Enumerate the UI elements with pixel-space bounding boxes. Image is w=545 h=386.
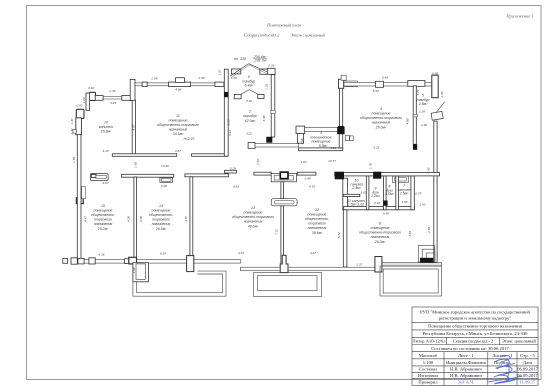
room3 top left block (296, 126, 305, 133)
chunk bathroom partition2 bottom (383, 201, 387, 206)
pier between kabinet window and top band (130, 79, 135, 100)
pier 1 top band (142, 82, 147, 86)
svg-text:34.5м²: 34.5м² (173, 132, 184, 136)
svg-text:3.22: 3.22 (246, 131, 252, 135)
bottom wall right segment (379, 263, 442, 266)
divider rooms 14/13 (190, 177, 193, 260)
svg-text:1.77: 1.77 (416, 89, 420, 95)
svg-text:2.8м²: 2.8м² (418, 102, 428, 106)
corridor window band (255, 144, 299, 147)
svg-text:2.2м²: 2.2м² (370, 194, 380, 198)
svg-text:4.87: 4.87 (175, 149, 181, 153)
svg-text:6.07: 6.07 (102, 181, 108, 185)
svg-text:помещение: помещение (152, 209, 171, 213)
bathroom horizontal partition (344, 194, 360, 196)
column B (76, 109, 84, 118)
long wall segment D (297, 172, 316, 175)
bump right of room4 column (341, 75, 346, 80)
svg-text:0.94: 0.94 (374, 201, 380, 205)
svg-text:назначения: назначения (152, 222, 171, 226)
bathroom block top wall (335, 173, 440, 176)
svg-text:ЗуЗ А.Ч.: ЗуЗ А.Ч. (458, 380, 475, 385)
svg-text:6.4м²: 6.4м² (245, 84, 254, 88)
bathroom right wall (411, 176, 414, 210)
svg-text:4.26: 4.26 (126, 216, 130, 222)
chunk bathroom mid column (373, 172, 381, 179)
svg-text:общественно-: общественно- (149, 213, 174, 217)
pier right of corridor window (298, 127, 304, 143)
svg-text:0.88: 0.88 (432, 71, 438, 75)
svg-text:общественно-: общественно- (91, 213, 116, 217)
svg-text:6.29: 6.29 (160, 251, 166, 255)
svg-text:Масштаб: Масштаб (419, 353, 438, 358)
window block kabinet left (95, 96, 103, 101)
room4 top-left column (339, 79, 344, 88)
svg-text:26.5м²: 26.5м² (155, 227, 167, 231)
room4 top right pier (408, 81, 425, 87)
svg-text:14: 14 (159, 204, 163, 208)
svg-text:10.68: 10.68 (161, 164, 169, 168)
svg-text:6.85: 6.85 (383, 211, 389, 215)
svg-text:1.01: 1.01 (265, 84, 269, 90)
bathroom partition 2 (384, 176, 387, 210)
bathroom bottom wall (344, 207, 415, 210)
svg-text:2.4м²: 2.4м² (351, 186, 361, 190)
mid pier top band (168, 82, 190, 86)
svg-text:1.63: 1.63 (300, 160, 306, 164)
svg-text:Н.В. Абрамович: Н.В. Абрамович (450, 367, 482, 372)
svg-text:1.76: 1.76 (368, 163, 372, 169)
svg-text:4.07: 4.07 (132, 124, 136, 130)
svg-text:Составлен по состоянию на: 30.: Составлен по состоянию на: 30.06.2017 (431, 346, 509, 351)
svg-text:1:100: 1:100 (423, 360, 434, 365)
long wall segment A rooms15 (122, 174, 174, 177)
svg-text:1.52: 1.52 (256, 159, 260, 165)
svg-text:помещение: помещение (244, 211, 263, 215)
svg-text:26.0м²: 26.0м² (375, 126, 387, 130)
svg-text:1.68: 1.68 (134, 162, 138, 168)
left wall duct fixture (82, 186, 86, 198)
room4 right wall (413, 86, 416, 145)
svg-text:3.38: 3.38 (198, 76, 204, 80)
tambour2 door leaf (431, 111, 443, 120)
svg-text:238.7м²: 238.7м² (254, 58, 268, 62)
vent fixture room15 (90, 174, 108, 181)
svg-text:12: 12 (315, 208, 319, 212)
svg-text:Проверил: Проверил (418, 379, 438, 384)
svg-text:назначения: назначения (371, 235, 390, 239)
tambour1 inner door post left (234, 94, 241, 98)
room3 bottom wall (299, 148, 343, 151)
svg-text:6: 6 (379, 222, 381, 226)
room4 right wall tick (413, 114, 417, 117)
black wall chunks (224, 92, 433, 263)
svg-text:62.0м²: 62.0м² (245, 119, 256, 123)
room11 right wall / corridor left wall (224, 69, 228, 156)
svg-text:Дата: Дата (523, 360, 532, 365)
svg-text:1.47: 1.47 (70, 118, 74, 124)
column A top-left entrance (89, 92, 95, 100)
svg-text:6.52: 6.52 (337, 232, 341, 238)
tick square on left wall (73, 130, 76, 134)
tambour2 ext wall chunk (432, 75, 438, 98)
svg-text:общественно-торгового: общественно-торгового (157, 123, 199, 127)
svg-text:общественно-торгового: общественно-торгового (359, 231, 401, 235)
svg-text:3.83: 3.83 (408, 231, 412, 237)
svg-text:1.5м² 1.02: 1.5м² 1.02 (348, 202, 364, 206)
svg-text:5.9м²: 5.9м² (319, 144, 328, 148)
svg-text:назначения: назначения (372, 121, 391, 125)
svg-text:назначения: назначения (94, 222, 113, 226)
svg-text:торгового: торгового (152, 218, 170, 222)
svg-text:6.28: 6.28 (161, 184, 167, 188)
wall from column A to column B (86, 93, 90, 110)
svg-text:2.96: 2.96 (440, 91, 444, 98)
svg-text:кабинет: кабинет (99, 125, 113, 129)
long wall segment B rooms14/13 (185, 174, 229, 177)
bottom wall mid segment (241, 267, 379, 271)
svg-text:4.18: 4.18 (102, 149, 108, 153)
svg-text:11.09.17: 11.09.17 (520, 380, 537, 385)
connector wall below shaft (281, 182, 284, 199)
svg-text:Стр. - 5: Стр. - 5 (520, 353, 535, 358)
svg-text:1.62: 1.62 (360, 191, 366, 195)
tambour1 right wall (271, 75, 275, 137)
svg-text:общественно-: общественно- (305, 217, 330, 221)
svg-text:3.08: 3.08 (227, 119, 231, 125)
fixture at room3/4 junction b (350, 136, 354, 140)
room labels (91, 55, 430, 244)
bottom wall left segment (71, 260, 241, 264)
svg-text:1.95: 1.95 (401, 200, 407, 204)
svg-text:4.83: 4.83 (233, 185, 239, 189)
svg-text:4.37: 4.37 (184, 216, 188, 222)
svg-text:10: 10 (104, 121, 108, 125)
svg-text:4.53: 4.53 (309, 184, 315, 188)
chunk bathroom top-left column (335, 172, 344, 180)
svg-text:0.75: 0.75 (415, 192, 421, 196)
porch column 3 (375, 257, 382, 273)
svg-text:Этаж: цокольный: Этаж: цокольный (502, 339, 537, 344)
svg-text:2: 2 (248, 110, 251, 114)
divider room10/room11 (132, 100, 135, 156)
svg-text:торгового: торгового (308, 222, 326, 226)
svg-text:25.2м²: 25.2м² (97, 227, 109, 231)
svg-text:регистрации и земельному кадас: регистрации и земельному кадастру" (439, 316, 512, 321)
chunk tambour wall bottom right (413, 144, 417, 150)
bathroom partition 1 (366, 176, 369, 210)
svg-text:5.12: 5.12 (228, 130, 232, 136)
svg-text:4: 4 (380, 107, 382, 111)
svg-text:5.43: 5.43 (373, 89, 379, 93)
middle terrace outline (254, 273, 322, 297)
svg-text:помещение: помещение (312, 140, 331, 144)
svg-text:2.80: 2.80 (427, 227, 431, 234)
room3 top window band (305, 127, 338, 131)
svg-text:3.26: 3.26 (246, 99, 252, 103)
svg-text:Изготовил: Изготовил (418, 373, 439, 378)
room11 bottom wall segment left (112, 154, 176, 157)
left stoop (133, 263, 149, 282)
svg-text:3.0м²: 3.0м² (385, 192, 394, 196)
tambour1 inner door post right (258, 94, 264, 98)
svg-text:РУП "Минское городское агентст: РУП "Минское городское агентство по госу… (420, 310, 530, 315)
svg-text:4.81: 4.81 (238, 251, 244, 255)
divider rooms 15/14 (134, 177, 137, 260)
central U fixture (271, 173, 296, 181)
svg-text:торгового: торгового (94, 218, 112, 222)
svg-text:3.48: 3.48 (262, 115, 266, 121)
room4 top pier 2 (376, 81, 384, 87)
svg-text:1.57: 1.57 (217, 69, 221, 75)
svg-text:Поэтажный план: Поэтажный план (266, 23, 301, 28)
dimension texts horizontal (76, 63, 438, 266)
chunk bottom-right dark band (420, 258, 433, 263)
svg-text:помещение: помещение (169, 119, 188, 123)
top window band rooms 10/11 (135, 83, 224, 86)
svg-text:1.29: 1.29 (419, 110, 425, 114)
tambour1 right top corner block (267, 68, 275, 74)
bump above mid pier (176, 78, 185, 83)
tambour2 door swing line (437, 102, 445, 112)
bottom-left column squares (63, 259, 68, 264)
left pilaster (76, 118, 82, 135)
svg-text:0.98: 0.98 (304, 177, 310, 181)
svg-text:1.58: 1.58 (72, 157, 76, 163)
tambour1 entrance door swing (231, 64, 268, 76)
tambour1 left door post (232, 69, 241, 74)
svg-text:5.26: 5.26 (373, 146, 379, 150)
svg-text:1.68: 1.68 (421, 123, 427, 127)
lower rounded fixture (271, 199, 297, 206)
svg-text:помещение: помещение (308, 213, 327, 217)
window kabinet glazing (103, 97, 122, 100)
svg-text:06.09.2017: 06.09.2017 (517, 373, 538, 378)
chunk room11 right wall top (224, 92, 228, 97)
long wall segment C (254, 172, 271, 175)
vent fixture room14 (160, 178, 173, 183)
svg-text:2.5м²: 2.5м² (399, 192, 409, 196)
svg-text:1.68: 1.68 (300, 138, 304, 144)
bathroom vent rect (393, 176, 409, 182)
svg-text:3.29: 3.29 (110, 101, 116, 105)
bathroom left wall (343, 178, 348, 210)
svg-text:0.28: 0.28 (230, 166, 236, 170)
svg-text:15.8м²: 15.8м² (101, 130, 112, 134)
svg-text:пл. 330: пл. 330 (234, 57, 246, 61)
svg-text:помещение: помещение (372, 112, 391, 116)
svg-text:26.3м²: 26.3м² (374, 240, 386, 244)
svg-text:4.95: 4.95 (427, 167, 431, 173)
svg-text:3.18: 3.18 (231, 76, 237, 80)
svg-text:3.26: 3.26 (330, 146, 336, 150)
svg-text:15: 15 (101, 204, 105, 208)
porch column 1 (187, 256, 194, 272)
svg-text:коридор: коридор (243, 114, 256, 118)
svg-text:48.0м²: 48.0м² (248, 225, 259, 229)
left exterior wall (77, 135, 81, 260)
svg-text:1.68: 1.68 (132, 267, 136, 273)
tick on corridor right wall (271, 110, 275, 113)
svg-text:5.39: 5.39 (268, 63, 274, 67)
title block table (412, 307, 538, 385)
blue signatures (488, 356, 522, 385)
svg-text:2.27: 2.27 (355, 263, 362, 267)
room4 left wall (339, 87, 342, 126)
corridor jog stub (225, 170, 237, 173)
left terrace outline (133, 271, 226, 296)
central shaft dark square (280, 172, 288, 179)
room6 left wall (343, 210, 347, 267)
room4 top window band (344, 82, 433, 86)
chunk corridor wall bottom (266, 137, 272, 143)
left wall column square (76, 198, 83, 204)
svg-text:1.32: 1.32 (70, 128, 74, 134)
svg-text:4.16: 4.16 (98, 252, 104, 256)
end pier top band (215, 82, 224, 86)
svg-text:1.29: 1.29 (82, 97, 86, 103)
svg-text:Лист - 1: Лист - 1 (458, 353, 474, 358)
svg-text:Н.В. Абрамович: Н.В. Абрамович (450, 373, 482, 378)
svg-text:0.60: 0.60 (88, 86, 94, 90)
svg-text:назначения: назначения (169, 128, 188, 132)
bathroom partition 3 (396, 176, 399, 210)
svg-text:назначения: назначения (308, 226, 327, 230)
svg-text:1.43: 1.43 (419, 203, 425, 207)
svg-text:помещение: помещение (371, 226, 390, 230)
svg-text:Составил: Составил (419, 367, 438, 372)
svg-text:Этаж: цокольный: Этаж: цокольный (290, 33, 325, 38)
svg-text:2.99: 2.99 (150, 77, 157, 81)
svg-text:06.09.2017: 06.09.2017 (517, 367, 538, 372)
svg-text:7.31: 7.31 (275, 229, 279, 235)
svg-text:общественно-торгового: общественно-торгового (360, 116, 402, 120)
chunk room4 left wall bottom (337, 127, 344, 134)
svg-text:10.77: 10.77 (328, 159, 336, 163)
room11 bottom wall segment right (192, 154, 228, 157)
svg-text:2.48: 2.48 (108, 89, 115, 93)
divider 13/12 lower (281, 206, 284, 268)
tambour1 inner door swing (241, 90, 258, 95)
svg-text:Приложение 1: Приложение 1 (505, 14, 533, 19)
svg-text:4.88: 4.88 (405, 118, 409, 124)
svg-text:4.86: 4.86 (175, 87, 181, 91)
porch bottle column (280, 255, 288, 272)
svg-text:6.48: 6.48 (382, 75, 388, 79)
dimension texts rotated (70, 69, 444, 273)
right terrace outline (380, 266, 442, 296)
window block kabinet right (122, 96, 131, 101)
svg-text:Секция (подъезд):- 2: Секция (подъезд):- 2 (453, 339, 494, 344)
right exterior wall (434, 121, 437, 263)
chunk room3 top right column (338, 126, 344, 132)
svg-text:13: 13 (251, 206, 255, 210)
svg-text:4.30: 4.30 (139, 216, 143, 222)
corner steps room6 (418, 246, 435, 263)
svg-text:общественно-торгового: общественно-торгового (232, 215, 274, 219)
svg-text:4.67: 4.67 (310, 251, 316, 255)
svg-text:Секция (подъезд):2: Секция (подъезд):2 (244, 33, 280, 38)
svg-text:Помещение общественно-торговог: Помещение общественно-торгового назначен… (428, 324, 523, 329)
svg-text:39.5м²: 39.5м² (312, 231, 323, 235)
svg-text:назначения: назначения (244, 220, 263, 224)
svg-text:Литер А10-12/6л: Литер А10-12/6л (413, 339, 447, 344)
svg-text:11: 11 (176, 114, 180, 118)
corridor window end block (248, 143, 255, 149)
fixture at room3/4 junction a (345, 135, 349, 140)
svg-text:h=2.97: h=2.97 (184, 137, 196, 141)
svg-text:4.47: 4.47 (84, 216, 88, 222)
room3 right wall (339, 132, 343, 148)
svg-text:помещение: помещение (94, 209, 113, 213)
